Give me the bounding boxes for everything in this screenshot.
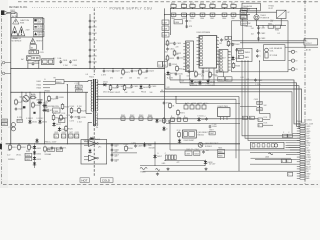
capacitor C688 bbox=[202, 105, 206, 109]
capacitor C625 electrolytic box bbox=[54, 134, 58, 138]
wire pin feed 10 bbox=[287, 144, 297, 146]
svg-text:SW601: SW601 bbox=[245, 52, 251, 54]
wire left aux drop bbox=[242, 19, 244, 49]
resistor R652 bbox=[18, 144, 21, 151]
wire reg rail bbox=[176, 103, 240, 105]
diode D672 bbox=[198, 80, 201, 85]
capacitor C6110 bbox=[163, 101, 166, 105]
svg-text:C 470u: C 470u bbox=[255, 84, 261, 86]
op-amp U602 comparator B bbox=[84, 155, 98, 161]
svg-text:C607: C607 bbox=[163, 23, 168, 25]
capacitor column C658 bbox=[111, 158, 114, 162]
svg-text:R607: R607 bbox=[231, 3, 235, 5]
connector pin 16 bbox=[297, 159, 306, 161]
capacitor C685 bbox=[256, 54, 259, 58]
resistor R623 bbox=[78, 107, 81, 114]
svg-text:E603: E603 bbox=[37, 88, 41, 90]
wire secondary rail 2 bbox=[97, 96, 239, 98]
op-amp IC604 error amp box bbox=[53, 108, 61, 113]
node SIP resistor pack bbox=[183, 41, 193, 72]
fuse F601 bbox=[10, 12, 17, 14]
wire mid low rail bbox=[166, 123, 240, 125]
resistor R644 bbox=[148, 117, 152, 120]
svg-text:NOISE: NOISE bbox=[37, 28, 42, 30]
svg-text:1: 1 bbox=[217, 36, 218, 38]
resistor R643 bbox=[139, 117, 143, 120]
svg-text:R 470: R 470 bbox=[17, 117, 22, 119]
capacitor C6111 bbox=[168, 120, 171, 124]
resistor R605 bbox=[210, 4, 215, 7]
svg-text:103: 103 bbox=[129, 77, 132, 79]
diode D618 bbox=[35, 138, 38, 143]
svg-text:601: 601 bbox=[163, 65, 166, 67]
resistor SB1 bbox=[252, 144, 255, 147]
svg-text:D653: D653 bbox=[37, 159, 41, 161]
capacitor C685 bbox=[184, 105, 188, 109]
node test point circle P603 bbox=[291, 68, 294, 71]
svg-text:UF4007: UF4007 bbox=[220, 58, 226, 60]
capacitor C659 bbox=[134, 144, 137, 148]
svg-text:TH603: TH603 bbox=[140, 171, 145, 173]
wire transformer primary bottom pin bbox=[86, 113, 92, 115]
capacitor C624 bbox=[146, 69, 149, 73]
node mid parts right bbox=[209, 132, 215, 135]
op-amp U601 comparator A bbox=[84, 141, 98, 147]
resistor R656b bbox=[44, 146, 47, 153]
wire routing loop 2 bbox=[180, 83, 300, 127]
node warning triangle right large bbox=[18, 27, 25, 36]
wire secondary rail 4 long bbox=[97, 118, 258, 120]
svg-text:D 31DF2: D 31DF2 bbox=[37, 118, 44, 120]
resistor R607 bbox=[231, 4, 236, 7]
wire vert a bbox=[21, 92, 23, 119]
wire main primary rail bbox=[11, 68, 165, 70]
capacitor C614 bbox=[89, 48, 92, 52]
optocoupler PC602 box bbox=[163, 62, 168, 68]
wire IC drop 1 bbox=[202, 68, 204, 80]
node left edge mark bbox=[0, 144, 2, 150]
resistor R663 bbox=[232, 62, 235, 69]
wire routing left vert 2 bbox=[245, 61, 300, 138]
wire pin feed 9 bbox=[286, 142, 297, 144]
svg-text:R655: R655 bbox=[26, 159, 31, 161]
capacitor C641 bbox=[171, 13, 176, 16]
connector pin 24 bbox=[297, 178, 306, 180]
svg-text:C663: C663 bbox=[186, 154, 191, 156]
svg-text:R643: R643 bbox=[139, 115, 143, 117]
capacitor C654 bbox=[51, 146, 54, 150]
svg-text:D 31DQ: D 31DQ bbox=[198, 115, 205, 117]
svg-text:R644: R644 bbox=[148, 115, 152, 117]
node ic top-right box b bbox=[228, 36, 231, 39]
diode D673 bbox=[206, 79, 209, 84]
svg-text:471: 471 bbox=[53, 113, 56, 115]
capacitor C677 bbox=[168, 155, 170, 160]
wire cap column link bbox=[258, 25, 260, 41]
svg-text:R641: R641 bbox=[121, 115, 125, 117]
wire top rail row1 bbox=[171, 7, 240, 9]
node reg label box B bbox=[225, 77, 232, 81]
wire vert e bbox=[66, 85, 68, 144]
svg-text:R653: R653 bbox=[26, 151, 30, 153]
capacitor C684 bbox=[256, 49, 259, 53]
wire AC outlet rail 2 bbox=[240, 42, 304, 44]
svg-text:C 2KV: C 2KV bbox=[101, 75, 107, 77]
svg-text:ZD 5.6V: ZD 5.6V bbox=[209, 164, 216, 166]
resistor R619 bbox=[60, 114, 63, 121]
svg-text:C 222: C 222 bbox=[75, 87, 80, 89]
node notice box 1 bbox=[34, 18, 45, 23]
capacitor C602 bbox=[69, 60, 72, 64]
svg-text:R697: R697 bbox=[210, 130, 214, 132]
capacitor C642 bbox=[182, 13, 187, 16]
resistor R606 bbox=[222, 4, 227, 7]
connector AC terminal block bbox=[29, 50, 39, 54]
diode D682 bbox=[178, 139, 181, 144]
capacitor C664 label box bbox=[194, 151, 200, 155]
wire inlet to block bbox=[16, 13, 18, 18]
resistor R694 bbox=[184, 118, 188, 121]
wire sec loop left vert bbox=[169, 121, 171, 150]
wire tp3 stub bbox=[289, 68, 292, 70]
wire routing loop 5 bbox=[160, 92, 300, 134]
resistor R651 bbox=[9, 144, 12, 151]
resistor R624 bbox=[48, 95, 51, 102]
node right stack box Q601 bbox=[241, 8, 248, 13]
connector pin 8 bbox=[297, 140, 306, 142]
wire transformer primary top pin bbox=[88, 80, 92, 82]
svg-text:IC601 STR6654: IC601 STR6654 bbox=[197, 32, 211, 34]
svg-text:S 1 2 3: S 1 2 3 bbox=[202, 68, 207, 70]
svg-text:R604: R604 bbox=[200, 3, 204, 5]
svg-text:7: 7 bbox=[217, 57, 218, 59]
capacitor C614 bbox=[169, 63, 172, 67]
capacitor C622b bbox=[15, 107, 18, 111]
op-amp IC605 secondary controller bbox=[219, 50, 231, 73]
node warning triangle left large bbox=[11, 27, 18, 36]
wire snubber column bbox=[89, 14, 91, 69]
capacitor C647 bbox=[231, 13, 236, 16]
node caution outline box bbox=[11, 18, 43, 38]
connector pin 4 bbox=[297, 130, 306, 132]
op-amp IC601 main control IC bbox=[197, 32, 220, 68]
capacitor C615 bbox=[89, 54, 92, 58]
node value labels cluster bbox=[7, 12, 312, 165]
resistor R627 bbox=[15, 99, 18, 106]
svg-text:C628: C628 bbox=[75, 132, 79, 134]
node degauss section outline box bbox=[232, 21, 289, 72]
svg-text:AC IN: AC IN bbox=[12, 15, 17, 18]
inductor L601 degauss coil bbox=[265, 48, 269, 58]
resistor R666 label box bbox=[218, 154, 225, 158]
capacitor C682 bbox=[257, 31, 260, 35]
svg-text:222: 222 bbox=[115, 146, 118, 148]
svg-text:223: 223 bbox=[176, 47, 179, 49]
capacitor C613 bbox=[177, 56, 180, 60]
svg-text:C 104: C 104 bbox=[212, 124, 217, 126]
resistor R632 bbox=[123, 84, 126, 91]
connector pin 21 bbox=[297, 170, 306, 172]
resistor R654 label box bbox=[25, 153, 32, 156]
connector pin 10 bbox=[297, 144, 306, 146]
wire sec rail 2 drop bbox=[238, 97, 240, 172]
svg-text:D 31DF2: D 31DF2 bbox=[26, 118, 33, 120]
capacitor C614b under filter bbox=[32, 62, 35, 66]
svg-text:C617: C617 bbox=[2, 124, 7, 126]
resistor R618 bbox=[52, 114, 55, 121]
capacitor C621 bbox=[103, 69, 106, 73]
resistor R658 bbox=[125, 145, 128, 152]
capacitor C626 electrolytic box bbox=[61, 134, 65, 138]
svg-text:R603: R603 bbox=[190, 3, 194, 5]
capacitor SB2 bbox=[257, 144, 260, 147]
svg-text:C 104 AC: C 104 AC bbox=[244, 22, 252, 25]
wire reg rail drop bbox=[175, 97, 177, 104]
svg-text:C 334: C 334 bbox=[63, 65, 68, 67]
capacitor C661 bbox=[220, 38, 223, 42]
svg-text:601: 601 bbox=[247, 79, 250, 81]
svg-text:1N4148: 1N4148 bbox=[36, 100, 42, 102]
svg-text:104: 104 bbox=[150, 92, 153, 94]
capacitor C604 label box bbox=[76, 89, 82, 92]
svg-text:R665: R665 bbox=[218, 151, 223, 153]
svg-text:9: 9 bbox=[217, 63, 218, 65]
diode D656 bbox=[143, 142, 146, 147]
diode D614 at transformer foot bbox=[89, 137, 94, 140]
connector pin 1 bbox=[297, 123, 306, 125]
svg-text:B+115V: B+115V bbox=[167, 78, 174, 80]
connector pin 15 bbox=[297, 156, 306, 158]
svg-text:473: 473 bbox=[201, 76, 204, 78]
resistor R625 bbox=[61, 103, 64, 110]
wire posistor top bbox=[256, 8, 258, 14]
diode D621 bbox=[166, 71, 169, 76]
svg-text:C 473: C 473 bbox=[70, 121, 75, 123]
svg-text:C645: C645 bbox=[210, 18, 214, 20]
diode chain D651 bbox=[33, 145, 36, 150]
connector pin 20 bbox=[297, 168, 306, 170]
svg-text:COLD: COLD bbox=[102, 179, 110, 183]
resistor R672 bbox=[209, 71, 212, 78]
svg-text:D652: D652 bbox=[37, 154, 41, 156]
wire IC605 drop bbox=[223, 72, 225, 77]
node sb label box 1 bbox=[281, 159, 286, 162]
resistor R665 label box bbox=[218, 150, 225, 154]
svg-text:Q604 PROTECT: Q604 PROTECT bbox=[205, 143, 219, 145]
resistor R617 label box bbox=[17, 119, 22, 122]
svg-text:103: 103 bbox=[115, 151, 118, 153]
resistor R620 bbox=[70, 107, 73, 114]
ground sym 3 bbox=[166, 168, 169, 171]
resistor R611 bbox=[166, 40, 169, 47]
svg-text:P2: P2 bbox=[295, 60, 297, 62]
capacitor C692 label box bbox=[257, 108, 262, 111]
capacitor C690 bbox=[209, 125, 212, 129]
node sub board circle bbox=[274, 144, 277, 147]
svg-text:2: 2 bbox=[217, 40, 218, 42]
capacitor C694 label box bbox=[283, 134, 288, 137]
svg-text:C616: C616 bbox=[2, 120, 7, 122]
node right stack box Q603 bbox=[241, 21, 248, 26]
capacitor C612 bbox=[89, 32, 92, 36]
node q cluster dark mark 2 bbox=[33, 112, 35, 114]
svg-text:Q601: Q601 bbox=[19, 97, 24, 99]
wire relay top link bbox=[247, 11, 277, 13]
connector pin 18 bbox=[297, 163, 306, 165]
svg-text:R642: R642 bbox=[130, 115, 134, 117]
wire routing loop 1 bbox=[170, 80, 300, 124]
relay RY601 box bbox=[277, 10, 287, 18]
capacitor C616 label box bbox=[2, 119, 8, 122]
capacitor C612 bbox=[166, 47, 169, 51]
resistor R671 bbox=[195, 71, 198, 78]
svg-text:C664: C664 bbox=[194, 154, 199, 156]
capacitor C662 bbox=[232, 43, 235, 47]
resistor R653 bbox=[28, 144, 31, 151]
svg-text:8: 8 bbox=[217, 60, 218, 62]
svg-text:222: 222 bbox=[145, 77, 148, 79]
svg-text:222: 222 bbox=[228, 52, 231, 54]
svg-text:HIGH V: HIGH V bbox=[36, 41, 43, 43]
svg-text:OUTLET: OUTLET bbox=[305, 43, 312, 45]
capacitor C611 bbox=[173, 42, 176, 46]
resistor R616 bbox=[32, 102, 35, 109]
wire AC outlet rail 1 bbox=[232, 40, 304, 42]
resistor R693 bbox=[177, 118, 181, 121]
inductor FB601 label box bbox=[56, 80, 65, 84]
node shunt reg box bbox=[59, 119, 65, 123]
resistor R603 bbox=[190, 4, 195, 7]
svg-text:R601: R601 bbox=[171, 3, 175, 5]
capacitor C621b bbox=[47, 109, 50, 113]
svg-text:C608: C608 bbox=[163, 29, 168, 31]
connector pin 2 bbox=[297, 125, 306, 127]
wire mid rail bbox=[11, 91, 88, 93]
node protector outline box bbox=[81, 140, 107, 165]
capacitor C611 bbox=[89, 25, 92, 29]
svg-text:C646: C646 bbox=[222, 18, 226, 20]
node label box bl2 bbox=[56, 148, 62, 151]
capacitor C665 bbox=[202, 150, 205, 154]
svg-text:CN601: CN601 bbox=[307, 120, 312, 122]
wire cap column bbox=[111, 144, 113, 162]
wire vert right of comp bbox=[154, 142, 156, 167]
svg-text:1W: 1W bbox=[8, 150, 11, 152]
diode chain D653 bbox=[33, 156, 36, 161]
capacitor C689 bbox=[205, 117, 208, 121]
svg-text:103: 103 bbox=[187, 76, 190, 78]
svg-text:POSISTOR: POSISTOR bbox=[260, 18, 269, 20]
wire top dashed border bbox=[18, 1, 318, 3]
resistor R6112 label box bbox=[243, 116, 248, 119]
capacitor C645 bbox=[210, 13, 215, 16]
capacitor C618 bbox=[70, 115, 73, 119]
wire sec rail 2 to conn bbox=[286, 147, 301, 149]
resistor R682 label box bbox=[240, 15, 247, 19]
svg-text:C625: C625 bbox=[54, 132, 58, 134]
svg-text:C664: C664 bbox=[195, 149, 199, 151]
diode D6110 bbox=[162, 126, 165, 131]
node ic top-right box a bbox=[225, 36, 228, 39]
wire bc rail bbox=[165, 160, 205, 162]
capacitor C695 label box bbox=[288, 134, 293, 137]
diode D613 bbox=[155, 118, 158, 123]
node circled pair bbox=[11, 123, 15, 131]
svg-text:C644: C644 bbox=[200, 18, 204, 20]
svg-text:ABL: ABL bbox=[306, 177, 309, 180]
svg-text:0.22: 0.22 bbox=[7, 155, 10, 157]
resistor R684 bbox=[275, 25, 281, 28]
svg-text:REVISED IN JAN.: REVISED IN JAN. bbox=[9, 6, 28, 9]
wire secondary rail 1 bbox=[97, 84, 165, 86]
capacitor C646 bbox=[222, 13, 227, 16]
optocoupler PC601 box bbox=[158, 62, 163, 68]
capacitor C679 bbox=[174, 155, 176, 160]
capacitor C671 bbox=[188, 70, 191, 74]
svg-text:COIL: COIL bbox=[270, 50, 274, 52]
resistor R661 bbox=[227, 40, 230, 47]
resistor R6113 label box bbox=[250, 116, 255, 119]
diode D671 bbox=[190, 79, 193, 84]
svg-text:P3: P3 bbox=[295, 69, 297, 71]
svg-text:VR601 = 115V: VR601 = 115V bbox=[44, 142, 57, 144]
node earth stub circle bbox=[2, 61, 11, 64]
connector pin 9 bbox=[297, 142, 306, 144]
svg-text:CN601: CN601 bbox=[296, 121, 303, 123]
capacitor C644 bbox=[200, 13, 205, 16]
svg-text:221: 221 bbox=[115, 161, 118, 163]
diode D681 bbox=[197, 117, 200, 122]
resistor R641 bbox=[121, 117, 125, 120]
wire rail drop A bbox=[170, 8, 172, 35]
capacitor C615 bbox=[175, 72, 178, 76]
resistor R612 bbox=[173, 50, 176, 57]
wire FB to transformer bbox=[64, 81, 88, 83]
capacitor C691 label box bbox=[257, 101, 262, 104]
wire secondary rail 3 bbox=[97, 98, 236, 100]
svg-text:SE115N: SE115N bbox=[53, 106, 60, 108]
resistor R601 bbox=[171, 4, 176, 7]
wire routing loop 4 bbox=[165, 89, 302, 123]
capacitor C652 bbox=[185, 25, 188, 29]
wire rail uplink 3 bbox=[189, 78, 191, 86]
svg-text:472: 472 bbox=[110, 77, 113, 79]
resistor R695 bbox=[178, 131, 181, 138]
wire left primary rail bbox=[10, 13, 12, 144]
svg-text:104: 104 bbox=[206, 150, 209, 152]
capacitor C681 bbox=[257, 26, 260, 30]
resistor R692 bbox=[171, 118, 175, 121]
svg-text:C693: C693 bbox=[254, 99, 258, 101]
wire IC drop 2 bbox=[208, 68, 210, 83]
resistor R602 bbox=[181, 4, 186, 7]
node warning triangle middle bbox=[30, 38, 35, 43]
wire sec rail 3 drop bbox=[235, 99, 237, 158]
wire cap pair drop bbox=[78, 82, 80, 86]
svg-text:FR104: FR104 bbox=[141, 92, 146, 94]
resistor R6110 bbox=[169, 102, 172, 109]
diode D617 bbox=[52, 122, 55, 127]
svg-text:FB601: FB601 bbox=[56, 82, 62, 84]
op-amp IC602 regulator 7805 bbox=[218, 106, 231, 120]
resistor R604 bbox=[200, 4, 205, 7]
ground sym 1 bbox=[156, 173, 159, 176]
diode D612 bbox=[139, 85, 142, 90]
diode D661 bbox=[231, 56, 234, 61]
thermistor TH601 posistor circle bbox=[254, 15, 259, 20]
wire extra conn feed bbox=[250, 151, 300, 153]
resistor R626 bbox=[65, 125, 68, 132]
